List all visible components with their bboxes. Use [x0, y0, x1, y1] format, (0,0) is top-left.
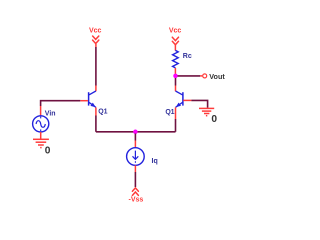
svg-text:0: 0	[45, 145, 51, 156]
svg-text:Vout: Vout	[209, 72, 225, 81]
svg-text:Vcc: Vcc	[169, 27, 182, 34]
svg-text:Rc: Rc	[183, 53, 192, 60]
svg-text:Vcc: Vcc	[89, 27, 102, 34]
svg-text:Iq: Iq	[152, 158, 158, 165]
svg-text:Q1: Q1	[98, 109, 107, 116]
svg-text:-Vss: -Vss	[129, 197, 144, 204]
svg-text:Vin: Vin	[45, 110, 56, 117]
svg-text:0: 0	[211, 114, 217, 125]
svg-text:Q1: Q1	[165, 109, 174, 116]
